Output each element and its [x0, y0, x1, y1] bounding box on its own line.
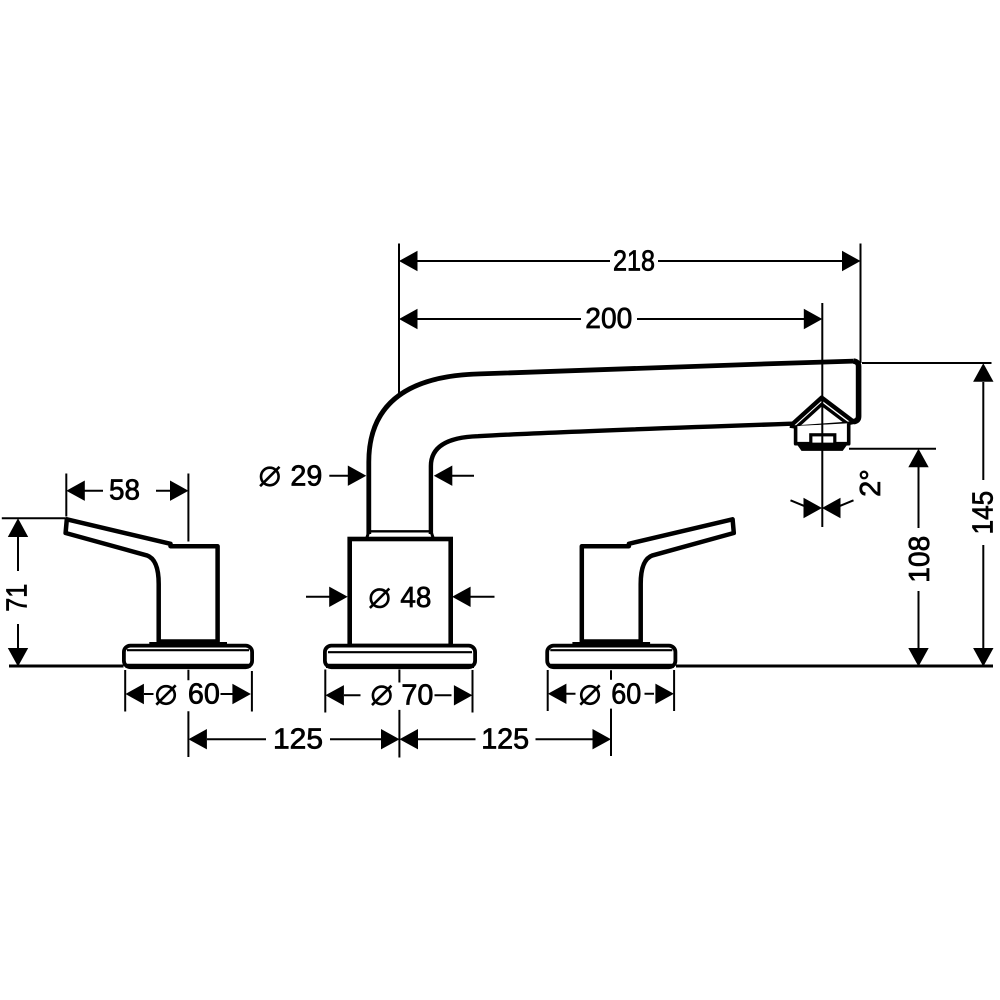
deck line left segment [9, 665, 124, 668]
extension line 218 right [860, 244, 862, 364]
extension line 58 right [187, 474, 189, 542]
spout and riser body [369, 361, 859, 534]
svg-text:70: 70 [401, 679, 433, 711]
dimension 2 degrees [791, 469, 887, 518]
dimension 71 [2, 518, 66, 666]
right handle skirt bar [572, 642, 650, 646]
svg-text:145: 145 [968, 491, 1000, 535]
dimension Ø29 [260, 461, 474, 493]
svg-text:48: 48 [400, 582, 431, 614]
svg-text:125: 125 [273, 723, 323, 755]
dimension Ø70 [325, 670, 472, 758]
riser flare line [367, 531, 434, 538]
svg-text:60: 60 [188, 679, 220, 711]
right handle flange (Ø60) [547, 646, 675, 668]
dimension Ø60 left [125, 670, 252, 757]
extension line 58 left [65, 474, 67, 517]
spout outlet nose (chevron) [791, 398, 853, 429]
center escutcheon flange (Ø70) [325, 646, 475, 668]
svg-text:2°: 2° [855, 469, 887, 497]
valve housing box (Ø48) [350, 539, 451, 646]
aerator [790, 422, 854, 451]
dimension 125 left [188, 723, 399, 755]
svg-text:29: 29 [290, 461, 322, 493]
spout end cap edge (thick) [854, 361, 859, 422]
dimension 125 right [400, 723, 612, 755]
dimension 58 [66, 475, 188, 507]
svg-text:71: 71 [2, 584, 34, 612]
svg-text:108: 108 [904, 536, 936, 583]
svg-text:60: 60 [611, 679, 641, 711]
dimension Ø60 right [548, 670, 674, 756]
dimension Ø48 [306, 582, 495, 614]
left handle skirt bar [149, 642, 227, 646]
extension line 218 left [398, 244, 400, 396]
svg-text:125: 125 [481, 723, 529, 755]
left handle body and lever [66, 519, 218, 641]
dimension 145 [862, 363, 1000, 667]
svg-text:218: 218 [613, 246, 655, 278]
deck line right segment [676, 665, 993, 668]
dimension 108 [849, 449, 936, 667]
dimension 218 [399, 246, 861, 278]
extension line 200 right / aerator axis [821, 303, 823, 527]
left handle flange (Ø60) [124, 646, 252, 668]
svg-text:200: 200 [585, 303, 632, 335]
dimension 200 [399, 303, 822, 335]
svg-text:58: 58 [109, 475, 140, 507]
right handle body and lever [582, 519, 734, 641]
